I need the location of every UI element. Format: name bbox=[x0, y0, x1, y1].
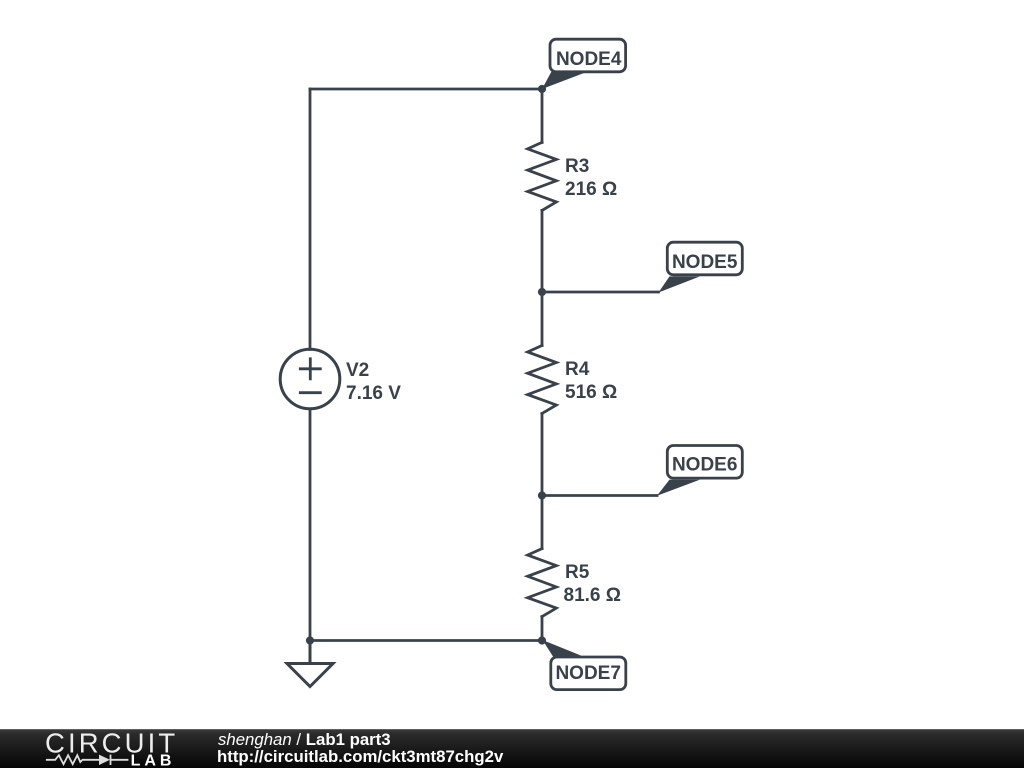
wire NODE5 junction to R4 bbox=[541, 292, 544, 346]
voltage source V2 circle bbox=[280, 349, 340, 409]
CircuitLab logo diode triangle bbox=[99, 755, 110, 765]
svg-text:NODE7: NODE7 bbox=[555, 663, 620, 684]
flag tail NODE4 bbox=[542, 72, 584, 90]
svg-text:NODE4: NODE4 bbox=[556, 49, 622, 70]
svg-text:NODE6: NODE6 bbox=[672, 455, 737, 476]
V2 plus sign bbox=[300, 359, 320, 379]
wire bottom horizontal (NODE7 net) bbox=[310, 639, 542, 642]
footer bar bbox=[0, 729, 1024, 768]
wire right vertical NODE4 to R3 bbox=[541, 89, 544, 142]
junction dot NODE7 bbox=[538, 636, 546, 644]
ground symbol bbox=[287, 641, 333, 687]
svg-text:R3: R3 bbox=[565, 156, 589, 177]
wire NODE6 junction to R5 bbox=[541, 496, 544, 549]
wire left vertical lower (V2 negative lead) bbox=[309, 409, 312, 641]
svg-text:NODE5: NODE5 bbox=[672, 252, 738, 273]
svg-text:216 Ω: 216 Ω bbox=[565, 179, 617, 200]
wire top horizontal (NODE4 net) bbox=[310, 88, 542, 91]
flag box NODE7 bbox=[551, 657, 626, 690]
wire NODE6 stub horizontal bbox=[542, 494, 657, 497]
svg-text:shenghan / Lab1 part3: shenghan / Lab1 part3 bbox=[218, 730, 391, 749]
svg-text:516 Ω: 516 Ω bbox=[565, 382, 617, 403]
wire R5 to NODE7 junction bbox=[541, 617, 544, 641]
svg-text:http://circuitlab.com/ckt3mt87: http://circuitlab.com/ckt3mt87chg2v bbox=[217, 747, 504, 766]
svg-text:R5: R5 bbox=[565, 562, 590, 583]
wire R3 to NODE5 junction bbox=[541, 210, 544, 292]
wire R4 to NODE6 junction bbox=[541, 414, 544, 496]
junction dot NODE6 bbox=[538, 491, 546, 499]
resistor R4 bbox=[528, 346, 557, 414]
junction dot NODE4 bbox=[538, 85, 546, 93]
resistor R5 bbox=[528, 549, 557, 617]
junction dot ground bbox=[306, 636, 314, 644]
wire NODE5 stub horizontal bbox=[542, 291, 659, 294]
junction dot NODE5 bbox=[538, 288, 546, 296]
resistor R3 bbox=[528, 142, 557, 210]
svg-text:LAB: LAB bbox=[131, 752, 176, 768]
flag box NODE4 bbox=[550, 39, 626, 72]
flag tail NODE5 bbox=[659, 276, 701, 292]
flag tail NODE7 bbox=[543, 640, 582, 657]
flag box NODE6 bbox=[667, 446, 742, 479]
svg-text:81.6 Ω: 81.6 Ω bbox=[564, 585, 622, 606]
svg-text:V2: V2 bbox=[346, 360, 369, 381]
svg-text:R4: R4 bbox=[565, 359, 590, 380]
V2 minus sign bbox=[300, 391, 320, 394]
svg-text:7.16 V: 7.16 V bbox=[346, 383, 401, 404]
flag box NODE5 bbox=[667, 242, 742, 275]
flag tail NODE6 bbox=[657, 480, 700, 496]
wire left vertical upper (V2 positive lead) bbox=[309, 89, 312, 349]
CircuitLab logo resistor-diode symbol bbox=[46, 755, 128, 765]
